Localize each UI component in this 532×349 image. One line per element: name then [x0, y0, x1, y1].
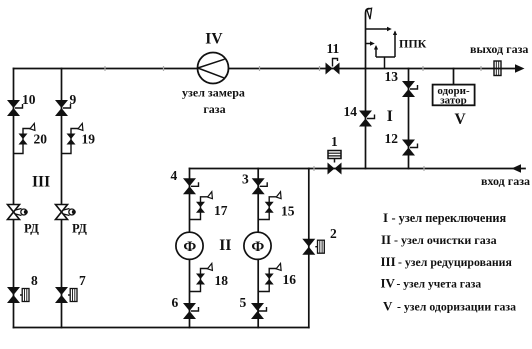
svg-text:13: 13: [385, 69, 399, 84]
svg-text:Ф: Ф: [251, 239, 264, 255]
svg-text:14: 14: [344, 104, 358, 119]
svg-text:II: II: [219, 237, 231, 254]
svg-text:I: I: [387, 108, 393, 125]
svg-text:9: 9: [70, 92, 77, 107]
svg-text:Ф: Ф: [183, 239, 196, 255]
svg-text:III: III: [32, 174, 50, 191]
svg-text:10: 10: [22, 92, 36, 107]
svg-text:выход газа: выход газа: [470, 42, 528, 56]
svg-text:5: 5: [240, 295, 247, 310]
svg-text:1: 1: [331, 134, 338, 149]
svg-text:газа: газа: [203, 102, 225, 116]
svg-text:- узел учета газа: - узел учета газа: [397, 279, 482, 291]
svg-text:затор: затор: [440, 95, 467, 107]
svg-text:6: 6: [172, 295, 179, 310]
svg-text:11: 11: [327, 41, 340, 56]
svg-text:V: V: [383, 299, 393, 314]
svg-text:РД: РД: [24, 222, 39, 236]
svg-text:РД: РД: [72, 222, 87, 236]
svg-text:вход газа: вход газа: [481, 174, 530, 188]
svg-text:IV: IV: [381, 276, 396, 291]
svg-text:- узел редуцирования: - узел редуцирования: [398, 255, 512, 269]
svg-text:2: 2: [330, 226, 337, 241]
svg-text:18: 18: [215, 273, 229, 288]
svg-text:19: 19: [82, 132, 96, 147]
svg-text:12: 12: [385, 131, 399, 146]
svg-text:4: 4: [171, 168, 178, 183]
svg-text:ППК: ППК: [399, 37, 427, 51]
svg-text:16: 16: [283, 272, 297, 287]
svg-text:20: 20: [34, 132, 48, 147]
svg-text:узел замера: узел замера: [182, 86, 245, 100]
svg-text:II: II: [381, 232, 391, 247]
svg-text:V: V: [455, 111, 467, 128]
svg-text:7: 7: [79, 273, 86, 288]
svg-text:- узел очистки газа: - узел очистки газа: [394, 233, 497, 247]
svg-text:- узел одоризации газа: - узел одоризации газа: [397, 300, 516, 314]
svg-text:17: 17: [214, 203, 228, 218]
svg-text:- узел переключения: - узел переключения: [392, 211, 507, 225]
svg-text:I: I: [383, 210, 388, 225]
svg-text:15: 15: [281, 204, 295, 219]
svg-text:8: 8: [31, 273, 38, 288]
svg-text:III: III: [381, 254, 396, 269]
svg-text:3: 3: [242, 172, 249, 187]
svg-text:IV: IV: [205, 30, 223, 47]
